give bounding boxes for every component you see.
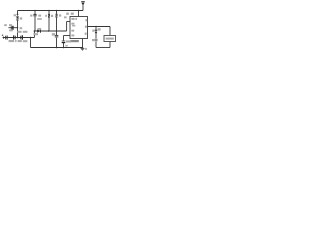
label below input caps <box>9 40 14 42</box>
capacitor C1 on x35 column <box>33 14 36 15</box>
label pin 7 <box>85 19 87 21</box>
wire mic stub y27.7 <box>8 27 17 29</box>
node dots bottom <box>17 26 97 49</box>
label caps row above <box>17 31 21 33</box>
wire column x35 <box>34 11 36 15</box>
wire ground rail <box>31 47 84 49</box>
label D3 upper-left <box>92 30 94 32</box>
wire column x49 <box>48 11 50 14</box>
diode D3 flyback <box>95 30 98 33</box>
wire CV link <box>64 35 71 37</box>
label D2 left <box>14 14 16 16</box>
label R3 right <box>59 14 61 16</box>
wire diode column <box>95 27 97 39</box>
input terminal bar <box>3 36 5 39</box>
label mic top2 <box>9 24 12 26</box>
label pin 3 <box>85 26 87 28</box>
wire bottom input line <box>3 37 35 39</box>
label Relay <box>106 38 114 40</box>
mic element plates y27.7 <box>11 26 13 30</box>
label R5 right <box>20 17 22 19</box>
resistor R2 blob x49 <box>48 14 50 18</box>
relay RL1 box <box>104 36 116 42</box>
wire relay bottom link <box>109 42 111 48</box>
label C6 right <box>66 40 71 42</box>
label pin 1 <box>85 33 87 35</box>
resistor R5 blob on x17.5 chain <box>17 17 19 21</box>
wire top +V rail <box>18 10 84 12</box>
label mic top <box>4 24 7 26</box>
label node x17.5 <box>20 27 23 29</box>
wire column x56.5 <box>56 11 58 14</box>
wire IC gnd stub <box>82 39 84 48</box>
label pin 8 4 <box>66 13 69 15</box>
label D3 value on line <box>95 39 98 42</box>
mic plus mark <box>2 34 4 36</box>
label C1 right <box>38 15 41 17</box>
label TR pin <box>71 23 74 25</box>
label mic bottom <box>9 29 13 31</box>
label near ground <box>85 48 87 50</box>
wire IC top stub <box>78 11 80 17</box>
label D3 left <box>92 39 94 41</box>
capacitor C6 on CV column <box>62 41 66 43</box>
label D3 top-right <box>98 28 101 30</box>
wire output pin3 <box>88 26 111 28</box>
label CV pin <box>71 35 74 37</box>
wire mid node line <box>34 30 66 32</box>
label trigger num <box>64 16 67 18</box>
wire trigger link <box>66 22 68 32</box>
diode D2 on x17.5 chain <box>16 14 18 17</box>
label R2 right <box>51 15 53 17</box>
IC U1 555 box <box>70 17 88 39</box>
capacitor C3 polarized <box>14 35 16 39</box>
label C5 <box>52 33 55 35</box>
label NE555 <box>70 40 79 42</box>
node dots mid wire <box>34 30 58 32</box>
label C1 value lower <box>37 18 42 20</box>
label DIS pin <box>71 18 74 20</box>
label R2 left <box>45 15 47 17</box>
power flag <box>81 2 85 6</box>
resistor R3 blob x56.5 <box>56 14 58 18</box>
label gnd2 <box>95 44 97 46</box>
node dots on rail <box>34 10 79 12</box>
ground symbol <box>81 48 85 50</box>
label near C6 foot <box>65 45 68 47</box>
label above diode <box>38 28 42 30</box>
capacitor C2 on input line <box>6 36 8 40</box>
wire vertical chain x17.5 <box>17 21 19 38</box>
label C1 left <box>30 15 32 17</box>
wire riser x34.4 <box>33 31 35 38</box>
label THR pin <box>71 30 74 32</box>
wire left drop from rail <box>17 11 19 15</box>
wire power symbol riser <box>82 5 84 10</box>
capacitor C5 on x56.5 column <box>55 35 59 37</box>
label diode D1 <box>33 33 38 35</box>
diode D1 on mid wire <box>37 29 40 33</box>
capacitor C4 polarized <box>21 35 23 39</box>
